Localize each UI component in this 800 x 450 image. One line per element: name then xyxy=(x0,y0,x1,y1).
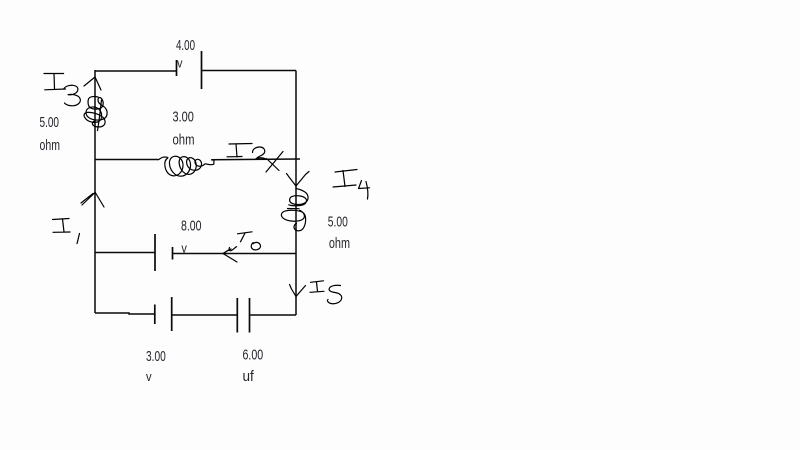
wire top-left horizontal xyxy=(95,70,176,72)
wire middle horizontal right xyxy=(212,158,301,161)
battery V1 long plate xyxy=(201,51,203,89)
battery V3 short plate xyxy=(154,305,156,325)
label I2 xyxy=(227,144,252,158)
current arrow I6 (left, on 8V wire) xyxy=(223,247,237,262)
label I3 xyxy=(44,74,66,90)
inductor L1 extra stroke xyxy=(98,100,102,131)
inductor L3 scribble (5.00 ohm, right branch) xyxy=(281,189,308,231)
current arrow I1 (up, mid-left) xyxy=(81,192,104,207)
battery V1 short plate xyxy=(176,60,178,76)
svg-text:3.00: 3.00 xyxy=(146,348,166,365)
capacitor C1 plate right xyxy=(249,298,251,333)
svg-text:v: v xyxy=(177,56,183,70)
capacitor C1 plate left xyxy=(236,298,238,333)
label I5 digit 5 xyxy=(327,285,341,304)
battery V2 long plate xyxy=(154,234,156,271)
svg-text:4.00: 4.00 xyxy=(176,37,195,54)
wire bottom left xyxy=(95,313,155,314)
svg-text:uf: uf xyxy=(243,368,255,385)
svg-text:ohm: ohm xyxy=(173,132,195,149)
svg-text:ohm: ohm xyxy=(40,137,61,154)
label I1 xyxy=(53,219,71,233)
inductor L1 scribble (5.00 ohm, left branch) xyxy=(84,97,107,127)
svg-text:3.00: 3.00 xyxy=(173,108,194,125)
wire right vertical xyxy=(295,71,297,316)
label I5 xyxy=(310,281,324,293)
wire top-right horizontal xyxy=(202,70,297,72)
label I4 xyxy=(333,170,357,188)
wire bottom right xyxy=(250,314,297,316)
label I6 xyxy=(238,232,253,242)
current arrow I2 (toward lower-left) xyxy=(266,152,283,173)
svg-text:5.00: 5.00 xyxy=(328,214,348,231)
svg-text:6.00: 6.00 xyxy=(243,347,264,364)
label I4 digit 4 xyxy=(359,181,370,200)
current arrow I5 (down, bottom-right) xyxy=(290,285,306,297)
wire middle horizontal left xyxy=(95,159,158,161)
wire left vertical xyxy=(94,70,96,313)
inductor L2 scribble (3.00 ohm) xyxy=(158,156,214,176)
svg-text:ohm: ohm xyxy=(329,235,350,252)
label I6 digit 6 xyxy=(251,242,260,249)
wire bottom middle xyxy=(172,314,238,316)
svg-text:8.00: 8.00 xyxy=(181,218,202,235)
current arrow I4 (down, right branch) xyxy=(287,172,310,187)
label I3 digit 3 xyxy=(64,85,80,106)
label I2 digit 2 xyxy=(253,147,267,159)
battery V3 long plate xyxy=(171,297,173,331)
svg-text:5.00: 5.00 xyxy=(40,114,60,131)
battery V2 short plate xyxy=(172,247,174,260)
svg-text:v: v xyxy=(146,370,152,384)
wire 8V branch right xyxy=(173,253,297,255)
label I1 digit 1 xyxy=(77,234,80,244)
wire 8V branch left xyxy=(95,252,155,254)
current arrow I3 (up, top-left) xyxy=(84,77,101,90)
